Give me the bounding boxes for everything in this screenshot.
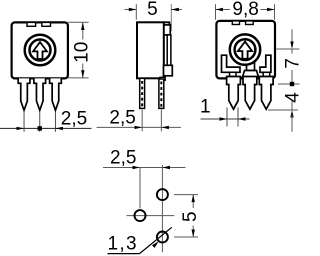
- svg-text:10: 10: [72, 42, 93, 63]
- pin 3 rear view: [259, 77, 273, 110]
- extension line pin1 left edge: [226, 108, 228, 127]
- rotor clip top: [164, 25, 170, 35]
- terminal neck left: [230, 72, 237, 76]
- extension line side pin left: [141, 110, 143, 132]
- extension line right dim 5: [170, 4, 172, 31]
- rotor outer circle: [25, 35, 56, 66]
- terminal bracket right: [260, 55, 271, 72]
- pin 1 front view: [18, 78, 30, 110]
- svg-text:5: 5: [147, 0, 158, 20]
- extension line pin1 right edge: [237, 108, 239, 127]
- pin 1 rear view: [227, 77, 241, 110]
- extension line pin tip right: [268, 109, 298, 111]
- dimension line 10: [82, 22, 84, 39]
- dimension line 2,5 side: [97, 126, 182, 128]
- top lip to rotor: [164, 22, 170, 25]
- hole B: [157, 189, 168, 200]
- dimension line 5 footprint: [192, 195, 194, 208]
- extension line hole C right: [174, 236, 198, 238]
- dimension line 2,5 front: [0, 127, 92, 129]
- notch right on top: [42, 22, 51, 26]
- square marker middle pin: [38, 126, 42, 130]
- extension line hole A vertical: [139, 168, 141, 209]
- body outline rear view: [216, 21, 275, 79]
- dimension line 2,5 footprint: [103, 167, 186, 169]
- svg-text:2,5: 2,5: [61, 108, 87, 129]
- body outline front view: [12, 22, 68, 78]
- svg-text:2,5: 2,5: [109, 108, 135, 129]
- extension line side pin right: [160, 110, 162, 132]
- extension line seat plane right: [278, 83, 300, 85]
- rotor arrow rear: [238, 42, 252, 59]
- extension line left dim 9,8: [215, 4, 217, 20]
- extension line hole B right: [174, 194, 198, 196]
- dimension line 5: [125, 9, 137, 11]
- square marker between 7 and 4: [290, 82, 294, 86]
- rotor plate strip: [167, 35, 171, 66]
- rotor inner circle: [30, 40, 51, 61]
- svg-text:1: 1: [200, 96, 211, 117]
- rotor outer circle rear: [230, 34, 260, 64]
- wire extension line top for dim 10: [68, 21, 89, 23]
- pin 2 front view: [34, 78, 46, 110]
- notch right rear: [246, 21, 254, 25]
- terminal center foot: [243, 71, 259, 78]
- dimension line 9,8: [216, 9, 231, 11]
- svg-text:4: 4: [283, 92, 300, 103]
- terminal center bar: [247, 63, 255, 71]
- extension line right dim 9,8: [274, 4, 276, 20]
- rotor clip bottom: [164, 65, 173, 76]
- extension line pin2 center: [39, 112, 41, 132]
- extension line pin1 center: [23, 112, 25, 132]
- extension line center axis right: [276, 48, 299, 50]
- svg-text:9,8: 9,8: [232, 0, 258, 20]
- svg-text:7: 7: [283, 58, 300, 69]
- pin 3 front view: [50, 78, 62, 110]
- extension line pin3 center: [54, 112, 56, 132]
- extension line left dim 5: [135, 4, 137, 20]
- hole A: [135, 210, 146, 221]
- notch left on top: [27, 22, 36, 26]
- dimension line 7 and 4: [291, 29, 293, 44]
- body outline side view: [137, 22, 164, 78]
- construction centerline vertical: [161, 165, 163, 252]
- terminal bracket left: [222, 55, 241, 72]
- centerline hole A horizontal: [127, 215, 175, 217]
- svg-text:2,5: 2,5: [110, 148, 136, 169]
- rotor arrow: [33, 42, 47, 59]
- pin left side view: [140, 78, 145, 108]
- pin right side view: [159, 79, 164, 108]
- notch left rear: [232, 21, 239, 25]
- hole C: [157, 232, 168, 243]
- wire extension line bottom for dim 10: [68, 77, 89, 79]
- pin 2 rear view: [243, 77, 257, 110]
- pin right side view step: [160, 77, 165, 80]
- svg-text:1,3: 1,3: [108, 234, 138, 255]
- terminal neck right: [263, 72, 270, 76]
- svg-text:5: 5: [180, 211, 201, 222]
- dimension line 1: [201, 118, 250, 120]
- rotor inner circle rear: [235, 39, 256, 60]
- leader line 1,3: [108, 253, 140, 255]
